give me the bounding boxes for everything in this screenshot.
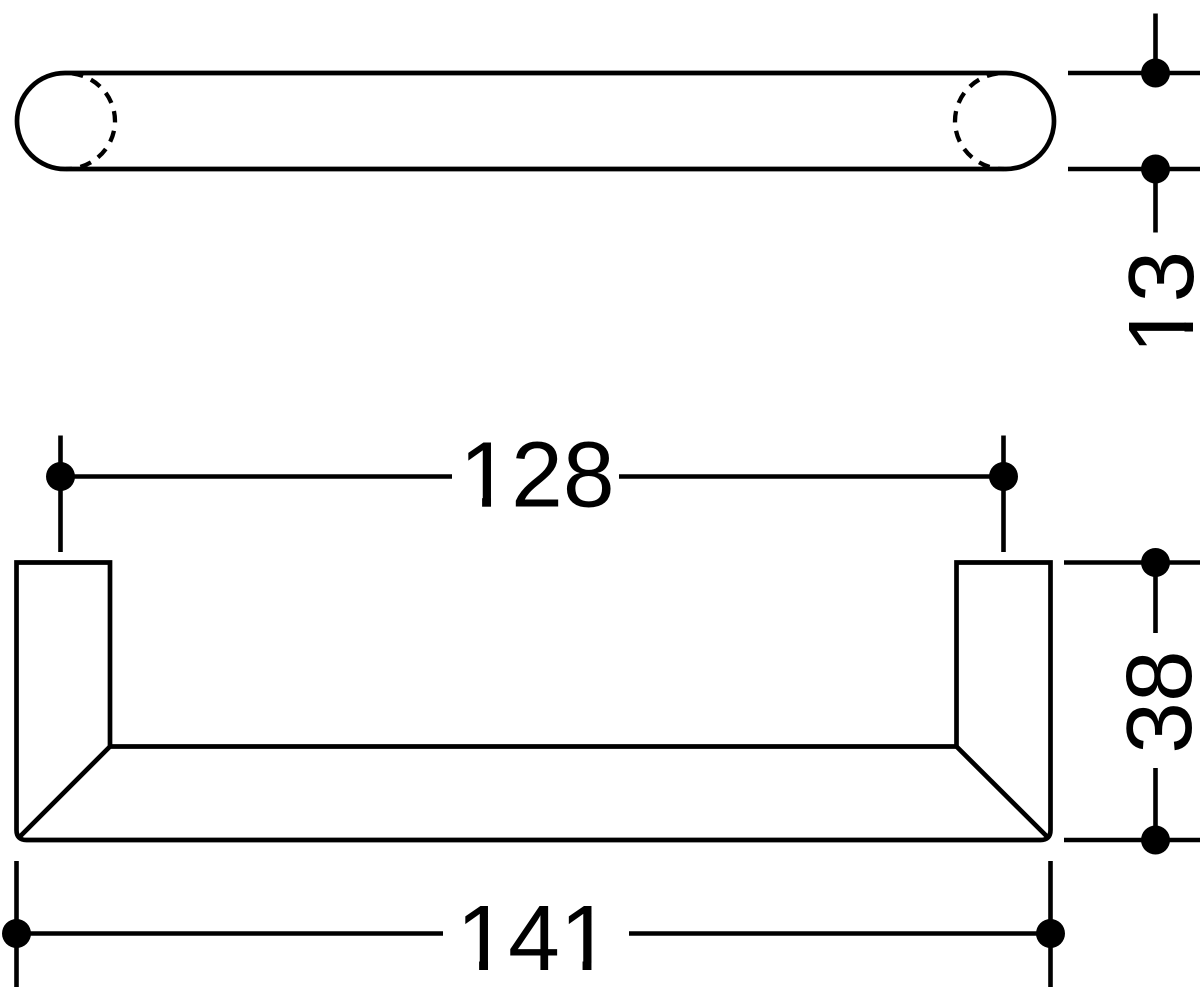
- svg-text:141: 141: [456, 886, 611, 990]
- svg-text:38: 38: [1107, 650, 1200, 753]
- svg-text:128: 128: [459, 423, 614, 527]
